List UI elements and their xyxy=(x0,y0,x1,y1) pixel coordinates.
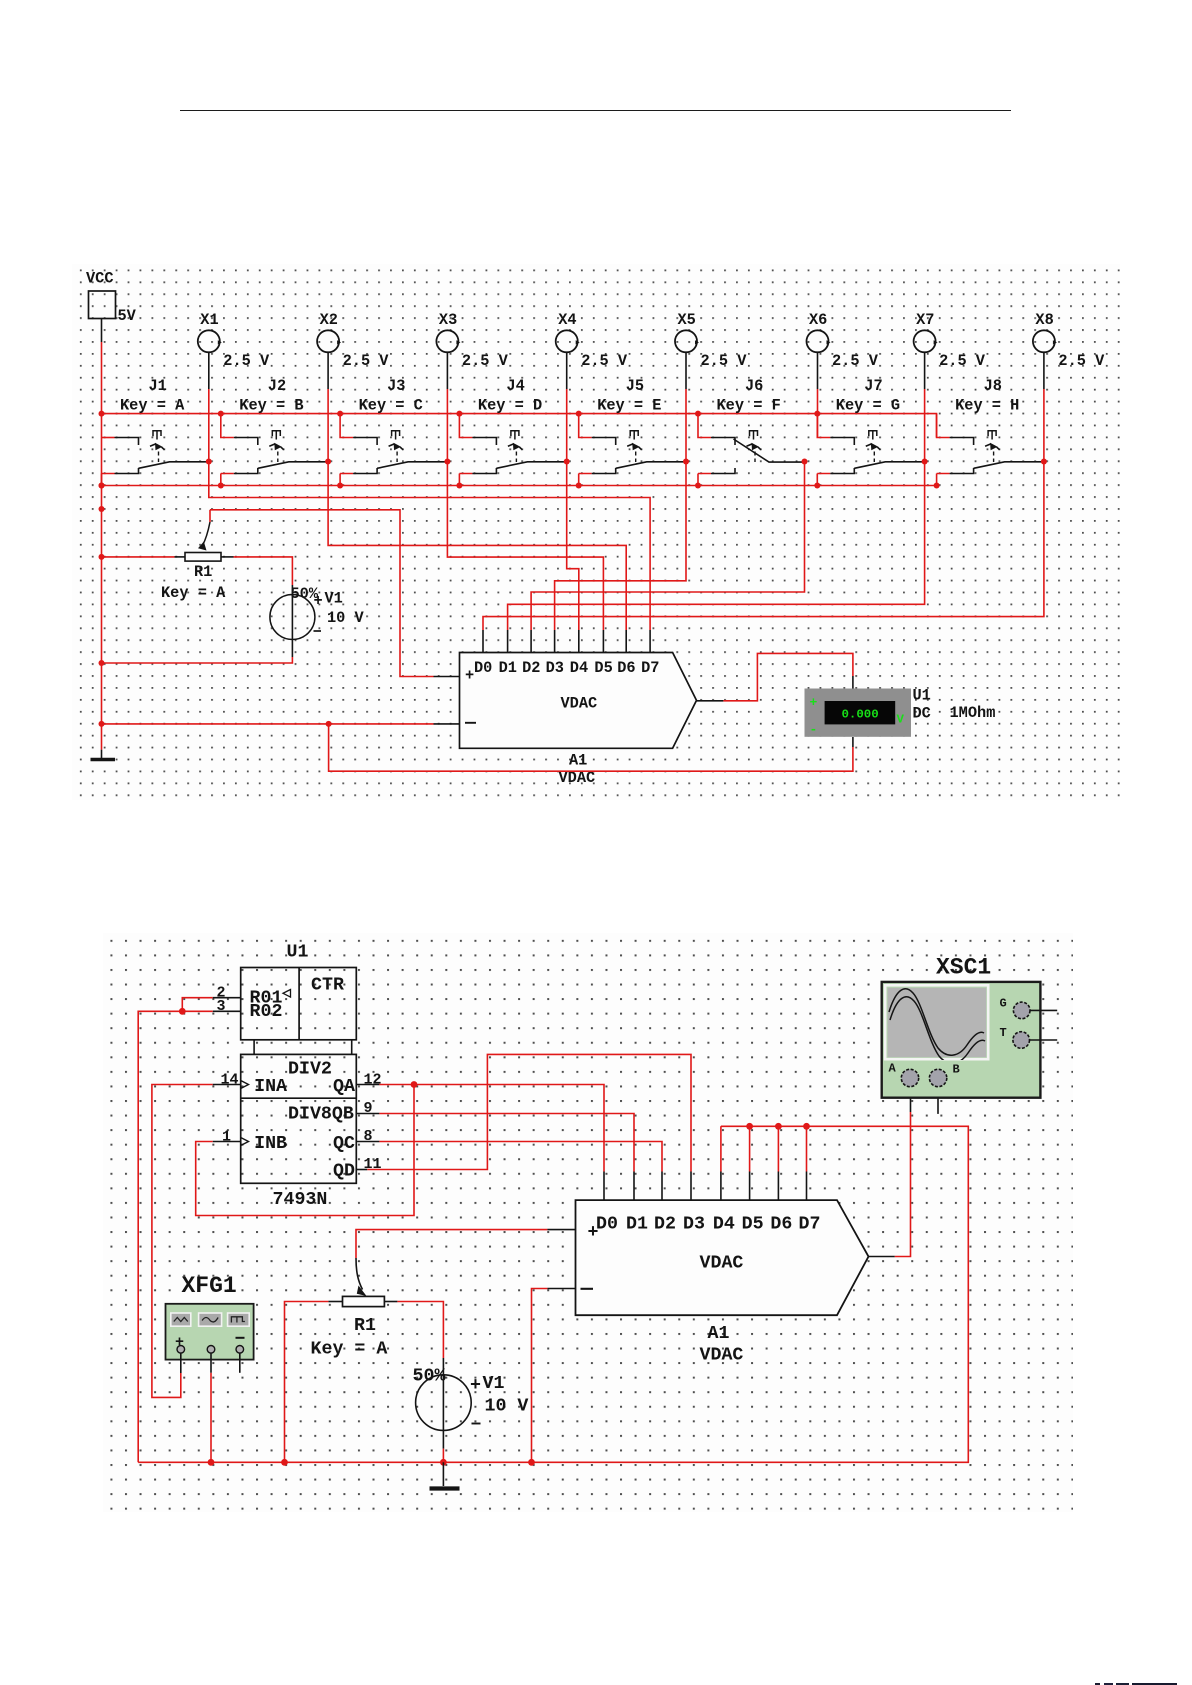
svg-text:U1: U1 xyxy=(913,687,931,705)
svg-text:D4: D4 xyxy=(570,659,588,677)
svg-text:D2: D2 xyxy=(522,659,540,677)
svg-text:QA: QA xyxy=(333,1077,355,1097)
svg-text:2.5 V: 2.5 V xyxy=(223,352,270,370)
svg-text:A: A xyxy=(889,1062,897,1076)
wire J2 arm to DAC D6 xyxy=(328,462,626,631)
svg-text:D7: D7 xyxy=(799,1215,821,1235)
switch J3 arm xyxy=(377,462,447,469)
svg-text:V1: V1 xyxy=(325,590,343,608)
counter U1 7493N CTR box xyxy=(241,968,357,1040)
node V1 ground junction xyxy=(440,1459,447,1466)
node J1 arm junction xyxy=(206,459,212,465)
wire J7 bottom-contact feed xyxy=(817,474,830,486)
switch J6 key symbol xyxy=(750,431,758,440)
wire QD to DAC D3 xyxy=(367,1054,691,1171)
wire R1 wiper to DAC plus xyxy=(209,510,211,522)
node J2 bus junctions xyxy=(218,411,224,417)
wire XFG1 plus stub xyxy=(180,1353,182,1373)
node J8 arm junction xyxy=(1041,459,1047,465)
svg-text:+: + xyxy=(314,592,323,610)
DAC A1 VDAC symbol xyxy=(460,653,697,749)
switch J5 key symbol xyxy=(630,431,638,440)
svg-text:V: V xyxy=(897,713,905,727)
horizontal rule xyxy=(180,110,1011,112)
svg-text:QC: QC xyxy=(333,1134,355,1154)
wire XFG1 common to ground bus xyxy=(210,1353,212,1373)
wire R1 left lead xyxy=(175,556,186,558)
svg-text:J6: J6 xyxy=(745,377,763,395)
svg-text:X8: X8 xyxy=(1035,311,1053,329)
svg-text:A1: A1 xyxy=(569,752,587,770)
svg-text:D7: D7 xyxy=(641,659,659,677)
wire lamp X4 stem xyxy=(566,352,568,389)
svg-text:Key = B: Key = B xyxy=(239,397,303,415)
svg-text:50%: 50% xyxy=(413,1367,446,1387)
pin 8 QC xyxy=(356,1141,379,1143)
svg-text:Key = A: Key = A xyxy=(120,397,185,415)
wire J7 arm to DAC D1 xyxy=(508,462,925,631)
wire lamp X1 stem xyxy=(208,352,210,389)
potentiometer R1 Key = A (bottom) xyxy=(343,1296,385,1306)
pin 9 QB xyxy=(356,1113,379,1115)
svg-text:XSC1: XSC1 xyxy=(936,955,991,981)
node J4 arm junction xyxy=(564,459,570,465)
R1 wiper arrow (bottom) xyxy=(356,1258,363,1290)
node J1 bus junctions xyxy=(99,411,105,417)
svg-text:INB: INB xyxy=(254,1134,287,1154)
voltage source V1 10V xyxy=(270,595,315,640)
svg-text:J3: J3 xyxy=(387,377,405,395)
svg-text:5V: 5V xyxy=(118,307,137,325)
wire lamp X7 stem xyxy=(924,352,926,389)
svg-text:14: 14 xyxy=(221,1072,239,1089)
svg-text:VCC: VCC xyxy=(86,270,114,288)
pin 14 INA xyxy=(213,1084,241,1086)
svg-text:Key = G: Key = G xyxy=(836,397,900,415)
svg-text:9: 9 xyxy=(364,1100,373,1117)
wire J6 top-contact feed xyxy=(698,414,711,438)
svg-text:G: G xyxy=(1000,997,1007,1011)
svg-text:Key = H: Key = H xyxy=(955,397,1019,415)
wire R1 right lead to V1 xyxy=(384,1301,397,1303)
wire J3 arm to DAC D5 xyxy=(447,462,603,631)
svg-text:10 V: 10 V xyxy=(485,1397,529,1417)
svg-text:J8: J8 xyxy=(984,377,1002,395)
switch J6 arm xyxy=(734,439,805,462)
svg-text:2.5 V: 2.5 V xyxy=(581,352,628,370)
svg-text:+: + xyxy=(470,1376,481,1396)
top schematic dotted grid background xyxy=(72,264,1120,800)
node J3 arm junction xyxy=(444,459,450,465)
svg-text:2.5 V: 2.5 V xyxy=(701,352,748,370)
svg-text:2.5 V: 2.5 V xyxy=(1058,352,1105,370)
svg-text:J7: J7 xyxy=(864,377,882,395)
switch J4 arm xyxy=(496,462,566,469)
switch J7 arm xyxy=(854,462,924,469)
wire J8 arm to DAC D0 xyxy=(483,462,1044,631)
svg-text:D0: D0 xyxy=(596,1215,618,1235)
wire J8 top-contact feed xyxy=(937,414,950,438)
bottom-right watermark remnant xyxy=(1095,1683,1100,1685)
wire QA branch to INB xyxy=(196,1085,414,1216)
svg-text:D5: D5 xyxy=(742,1215,764,1235)
XSC1 sine trace xyxy=(889,989,985,1063)
wire bus1 VCC distribution xyxy=(102,414,937,438)
wire J3 top-contact feed xyxy=(340,414,353,438)
wire J4 top-contact feed xyxy=(459,414,472,438)
svg-text:Key = F: Key = F xyxy=(717,397,781,415)
switch J6 contacts xyxy=(711,438,735,446)
node XFG1 common bus junction xyxy=(208,1459,215,1466)
svg-text:A1: A1 xyxy=(708,1324,730,1344)
power VCC 5V source xyxy=(89,291,116,319)
indicator lamp X5 2.5V xyxy=(675,330,697,352)
svg-text:CTR: CTR xyxy=(311,976,344,996)
node R1 left bus junction xyxy=(281,1459,288,1466)
indicator lamp X3 2.5V xyxy=(436,330,458,352)
wire R1 right lead to V1 xyxy=(221,556,234,558)
voltmeter U1 DC 1MOhm xyxy=(805,689,912,737)
wire DAC pin stubs (bottom) xyxy=(603,1172,605,1201)
wire J4 bottom-contact feed xyxy=(459,474,472,486)
node J6 bus junctions xyxy=(695,411,701,417)
switch J7 key symbol xyxy=(869,431,877,440)
switch J3 key symbol xyxy=(392,431,400,440)
node QA junction xyxy=(411,1081,418,1088)
wire J5 top-contact feed xyxy=(579,414,592,438)
wire lamp X3 stem xyxy=(446,352,448,389)
node J5 bus junctions xyxy=(576,411,582,417)
svg-text:X1: X1 xyxy=(200,311,218,329)
svg-text:X5: X5 xyxy=(678,311,696,329)
svg-text:R1: R1 xyxy=(354,1316,376,1336)
svg-text:1: 1 xyxy=(222,1129,231,1146)
pin 3 R02 xyxy=(213,1010,241,1012)
switch J4 contacts xyxy=(472,438,496,446)
node DAC minus bus junction xyxy=(528,1459,535,1466)
node J2 arm junction xyxy=(325,459,331,465)
indicator lamp X8 2.5V xyxy=(1033,330,1055,352)
svg-text:+: + xyxy=(810,695,818,710)
node reset junction xyxy=(179,1008,186,1015)
indicator lamp X7 2.5V xyxy=(914,330,936,352)
wire J8 bottom-contact feed xyxy=(937,474,950,486)
wire CTR-DIV connector stubs xyxy=(253,1040,255,1055)
svg-text:U1: U1 xyxy=(287,943,309,963)
svg-text:INA: INA xyxy=(254,1077,287,1097)
switch J4 key symbol xyxy=(511,431,519,440)
wire D4-D7 ground drops xyxy=(721,1126,807,1171)
node J8 bus junctions xyxy=(934,483,940,489)
wire VCC/ground left vertical rail xyxy=(101,342,103,750)
svg-text:X6: X6 xyxy=(809,311,827,329)
switch J2 arm xyxy=(258,462,328,469)
node D6 ground tap xyxy=(775,1123,782,1130)
node D5 ground tap xyxy=(746,1123,753,1130)
svg-text:11: 11 xyxy=(364,1156,382,1173)
wire J5 bottom-contact feed xyxy=(579,474,592,486)
node J3 bus junctions xyxy=(337,411,343,417)
svg-text:Key = D: Key = D xyxy=(478,397,542,415)
ground (bottom schematic) xyxy=(442,1462,444,1486)
wire bottom ground bus xyxy=(138,1126,968,1462)
svg-text:T: T xyxy=(1000,1026,1007,1040)
wire DAC output to voltmeter plus xyxy=(697,700,724,702)
wire J7 top-contact feed xyxy=(817,414,830,438)
svg-text:VDAC: VDAC xyxy=(700,1254,744,1274)
wire J5 arm to DAC D3 xyxy=(555,462,686,631)
switch J1 arm xyxy=(139,462,209,469)
R1 wiper arrow xyxy=(203,522,211,546)
wire DAC plus to R1 wiper xyxy=(356,1230,547,1258)
wire bus2 ground distribution xyxy=(102,485,937,487)
svg-text:V1: V1 xyxy=(483,1374,505,1394)
XFG1 waveform buttons xyxy=(171,1313,191,1326)
svg-text:D4: D4 xyxy=(713,1215,735,1235)
DAC A1 VDAC symbol (bottom) xyxy=(576,1200,869,1315)
wire DAC minus rail xyxy=(102,723,434,725)
wire INA to XFG1 plus xyxy=(152,1085,213,1398)
node voltmeter minus tap xyxy=(326,721,332,727)
wire J6 arm to DAC D2 xyxy=(531,462,804,631)
indicator lamp X2 2.5V xyxy=(317,330,339,352)
wire J6 bottom-contact feed xyxy=(698,474,711,486)
svg-text:Key = A: Key = A xyxy=(161,584,226,602)
svg-text:X4: X4 xyxy=(558,311,576,329)
switch J8 arm xyxy=(974,462,1044,469)
wire QC to DAC D2 xyxy=(379,1142,662,1172)
wire lamp X2 stem xyxy=(327,352,329,389)
svg-text:DIV2: DIV2 xyxy=(288,1060,332,1080)
wire DAC minus to ground bus xyxy=(547,1288,575,1290)
switch J8 contacts xyxy=(950,438,974,446)
XSC1 screen xyxy=(885,985,988,1059)
wire J1 arm to DAC D7 xyxy=(209,462,650,631)
svg-text:D0: D0 xyxy=(474,659,492,677)
wire reset/ground net (pins 2,3 to bottom bus) xyxy=(138,1011,213,1462)
node ground-line junctions xyxy=(99,483,105,489)
wire voltmeter minus return xyxy=(852,737,854,747)
svg-text:J1: J1 xyxy=(149,377,167,395)
wire DAC data pin stubs xyxy=(482,630,484,653)
svg-text:D1: D1 xyxy=(626,1215,648,1235)
svg-text:D5: D5 xyxy=(594,659,612,677)
ground (top schematic) xyxy=(101,750,103,758)
svg-text:D6: D6 xyxy=(770,1215,792,1235)
svg-text:R1: R1 xyxy=(194,563,212,581)
wire lamp X8 stem xyxy=(1043,352,1045,389)
wire J4 arm to DAC D4 xyxy=(567,462,579,631)
svg-text:J5: J5 xyxy=(626,377,644,395)
svg-text:VDAC: VDAC xyxy=(700,1346,744,1366)
svg-text:1MOhm: 1MOhm xyxy=(950,704,996,722)
switch J2 contacts xyxy=(234,438,258,446)
pin 12 QA xyxy=(356,1084,379,1086)
wire V1 minus to ground rail xyxy=(102,657,293,663)
pin 11 QD xyxy=(356,1169,367,1171)
svg-text:DC: DC xyxy=(913,705,931,723)
svg-text:Key = C: Key = C xyxy=(359,397,423,415)
svg-text:Key = A: Key = A xyxy=(311,1340,388,1360)
svg-text:2.5 V: 2.5 V xyxy=(462,352,509,370)
svg-text:7493N: 7493N xyxy=(273,1190,328,1210)
svg-text:D3: D3 xyxy=(683,1215,705,1235)
wire QA to DAC D0 xyxy=(379,1085,604,1172)
voltage source V1 10V (bottom) xyxy=(416,1375,472,1431)
indicator lamp X6 2.5V xyxy=(807,330,829,352)
indicator lamp X4 2.5V xyxy=(556,330,578,352)
svg-text:X7: X7 xyxy=(916,311,934,329)
bottom schematic dotted grid background xyxy=(103,933,1073,1512)
switch J1 key symbol xyxy=(153,431,161,440)
pin 1 INB xyxy=(213,1141,241,1143)
svg-text:R02: R02 xyxy=(250,1002,283,1022)
potentiometer R1 50% Key = A xyxy=(185,553,221,562)
wire scope channel B stub xyxy=(937,1087,939,1114)
svg-text:QD: QD xyxy=(333,1162,355,1182)
svg-text:3: 3 xyxy=(217,998,226,1015)
wire DAC output to scope channel A xyxy=(869,1256,895,1258)
wire J2 bottom-contact feed xyxy=(221,474,234,486)
pin 2 R01 xyxy=(213,997,241,999)
svg-text:12: 12 xyxy=(364,1072,382,1089)
svg-text:J4: J4 xyxy=(506,377,524,395)
switch J7 contacts xyxy=(830,438,854,446)
wire XFG1 minus stub xyxy=(239,1353,241,1373)
wire pin2 to reset net xyxy=(182,998,212,1012)
node J5 arm junction xyxy=(683,459,689,465)
svg-text:10 V: 10 V xyxy=(327,609,365,627)
node J7 bus junctions xyxy=(814,411,820,417)
svg-text:2.5 V: 2.5 V xyxy=(343,352,390,370)
svg-text:XFG1: XFG1 xyxy=(182,1273,237,1299)
switch J8 key symbol xyxy=(988,431,996,440)
svg-text:0.000: 0.000 xyxy=(842,708,879,722)
switch J1 contacts xyxy=(115,438,139,446)
wire J1 bottom-contact feed xyxy=(102,474,115,486)
svg-text:DIV8QB: DIV8QB xyxy=(288,1105,354,1125)
wire J1 top-contact feed xyxy=(102,437,115,439)
node J4 bus junctions xyxy=(456,411,462,417)
counter U1 DIV box xyxy=(241,1054,357,1183)
svg-text:+: + xyxy=(465,667,474,685)
node J6 arm junction xyxy=(802,459,808,465)
svg-text:D2: D2 xyxy=(654,1215,676,1235)
node D7 ground tap xyxy=(803,1123,810,1130)
indicator lamp X1 2.5V xyxy=(198,330,220,352)
svg-text:X3: X3 xyxy=(439,311,457,329)
switch J3 contacts xyxy=(353,438,377,446)
switch J5 arm xyxy=(616,462,686,469)
svg-text:D6: D6 xyxy=(617,659,635,677)
svg-text:2.5 V: 2.5 V xyxy=(939,352,986,370)
svg-text:X2: X2 xyxy=(320,311,338,329)
svg-text:+: + xyxy=(588,1223,599,1243)
switch J5 contacts xyxy=(592,438,616,446)
svg-text:VDAC: VDAC xyxy=(561,695,598,713)
svg-text:D1: D1 xyxy=(499,659,517,677)
switch J2 key symbol xyxy=(272,431,280,440)
wire J3 bottom-contact feed xyxy=(340,474,353,486)
svg-text:-: - xyxy=(810,722,818,737)
svg-text:J2: J2 xyxy=(268,377,286,395)
wire VCC stem (black) xyxy=(101,319,103,343)
wire lamp X6 stem xyxy=(817,352,819,389)
svg-text:Key = E: Key = E xyxy=(597,397,661,415)
node J7 arm junction xyxy=(922,459,928,465)
wire R1 left lead to bus xyxy=(328,1301,342,1303)
wire lamp X5 stem xyxy=(685,352,687,389)
wire QB to DAC D1 xyxy=(379,1114,634,1172)
svg-text:D3: D3 xyxy=(546,659,564,677)
svg-text:2.5 V: 2.5 V xyxy=(832,352,879,370)
svg-text:8: 8 xyxy=(364,1128,373,1145)
svg-text:B: B xyxy=(953,1063,960,1077)
wire J2 top-contact feed xyxy=(221,414,234,438)
